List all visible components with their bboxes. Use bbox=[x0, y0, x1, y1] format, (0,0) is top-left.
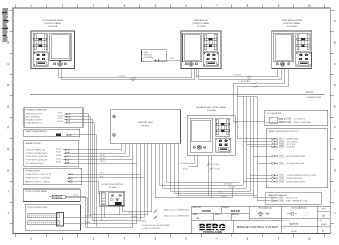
wire spare staircase 2 bbox=[163, 143, 247, 188]
riser bus v2 bbox=[237, 87, 266, 139]
cable legend entry 1 bbox=[153, 208, 189, 213]
berg propulsion logo bbox=[198, 222, 228, 234]
control lever U2 main bbox=[203, 33, 217, 51]
svg-text:POWER SUPPLY 1 - 24VDC 10 (24): POWER SUPPLY 1 - 24VDC 10 (24) bbox=[25, 174, 51, 176]
svg-text:G: G bbox=[334, 147, 336, 151]
wire VDR to main panel bbox=[159, 58, 181, 60]
shaft speed sensor box bbox=[24, 129, 80, 137]
svg-text:G: G bbox=[7, 147, 9, 151]
title text bridge control system bbox=[237, 225, 278, 229]
svg-text:SOLiD: SOLiD bbox=[291, 231, 297, 233]
cable engine panel A bbox=[180, 155, 194, 165]
svg-text:KS-423: KS-423 bbox=[221, 196, 226, 198]
svg-text:KS-421: KS-421 bbox=[182, 169, 187, 171]
svg-text:10: 10 bbox=[308, 236, 311, 240]
wire fan band 0 bbox=[167, 143, 240, 182]
pushbuttons and display engine room bbox=[216, 138, 231, 152]
svg-text:5973-74: 5973-74 bbox=[290, 224, 299, 226]
svg-text:PRESSURE SWITCH: PRESSURE SWITCH bbox=[26, 114, 43, 116]
wire local panel k1 bbox=[122, 143, 151, 211]
screen unit main bbox=[183, 33, 202, 62]
svg-text:KS-443: KS-443 bbox=[85, 215, 90, 217]
wire fan band 1 bbox=[171, 143, 250, 191]
svg-text:IN31630: IN31630 bbox=[202, 210, 212, 213]
cable engine panel D bbox=[209, 155, 220, 198]
svg-text:LUBRICATION FLOW: LUBRICATION FLOW bbox=[26, 121, 43, 124]
svg-text:2x PL-4012: 2x PL-4012 bbox=[224, 183, 232, 185]
svg-text:KS-444: KS-444 bbox=[85, 222, 90, 224]
svg-text:ENGINE ROOM: ENGINE ROOM bbox=[307, 97, 322, 99]
terminal strip local panel bbox=[101, 192, 105, 204]
hydraulic tank unit box bbox=[24, 108, 83, 127]
screen unit stbd bbox=[273, 33, 293, 62]
panel PU-2030B stbd bridge wing control panel bbox=[272, 20, 312, 68]
riser bus v5 bbox=[250, 97, 266, 191]
svg-text:DATA LOGGER [NON-FU 15 SEC-C]: DATA LOGGER [NON-FU 15 SEC-C] bbox=[269, 130, 299, 133]
title cell drawn by bbox=[193, 213, 240, 220]
wire engine panel right feed bbox=[235, 122, 237, 124]
wire local panel k2 bbox=[89, 143, 148, 214]
svg-text:NAVS SWITCHBOARD: NAVS SWITCHBOARD bbox=[268, 194, 287, 197]
svg-text:KS-454: KS-454 bbox=[56, 158, 61, 160]
svg-text:PL-4013: PL-4013 bbox=[229, 187, 235, 189]
svg-text:KS-431: KS-431 bbox=[58, 113, 63, 115]
panel PU-2030 main bridge control panel bbox=[181, 19, 221, 68]
svg-text:SHEET: SHEET bbox=[318, 220, 322, 222]
svg-text:BRIDGE CONTROL SYSTEM: BRIDGE CONTROL SYSTEM bbox=[237, 225, 278, 229]
svg-text:KS-434: KS-434 bbox=[58, 121, 63, 123]
data logger box bbox=[266, 129, 328, 188]
panel PU-2030A port bridge wing control panel bbox=[31, 20, 75, 68]
cable legend entry 2 bbox=[153, 215, 189, 220]
svg-text:PITCH CONTROL VALVE: PITCH CONTROL VALVE bbox=[25, 190, 47, 193]
wire fan band 4 bbox=[155, 143, 232, 198]
control lever U3 stbd bbox=[296, 33, 310, 51]
svg-text:2x KS-420: 2x KS-420 bbox=[180, 163, 188, 165]
control lever U1 port bbox=[33, 33, 47, 51]
svg-text:PORT BRIDGE WING: PORT BRIDGE WING bbox=[42, 20, 63, 22]
knob row port bbox=[53, 62, 67, 67]
svg-text:LOCAL PITCH CONTROL: LOCAL PITCH CONTROL bbox=[101, 183, 123, 186]
svg-text:IF CONVERTER: IF CONVERTER bbox=[267, 113, 282, 115]
svg-text:HYDRAULIC TANK UNIT: HYDRAULIC TANK UNIT bbox=[26, 109, 48, 112]
svg-text:PU-4040: PU-4040 bbox=[109, 187, 116, 189]
svg-text:KS-411: KS-411 bbox=[100, 155, 105, 157]
svg-text:KS-412: KS-412 bbox=[100, 158, 105, 160]
svg-text:B66-436: B66-436 bbox=[231, 210, 241, 213]
svg-text:Mechanical drawing: Mechanical drawing bbox=[292, 207, 307, 210]
wire local panel k4 bbox=[93, 174, 141, 221]
svg-text:MAIN BRIDGE: MAIN BRIDGE bbox=[194, 19, 208, 22]
cable engine panel C bbox=[206, 155, 219, 195]
svg-text:2x KS-401: 2x KS-401 bbox=[117, 76, 125, 78]
svg-text:Electrical drawing: Electrical drawing bbox=[258, 207, 271, 210]
column ruler numbers top bbox=[16, 4, 325, 8]
svg-text:LOG DATA: LOG DATA bbox=[144, 56, 154, 59]
wire fan band 2 bbox=[174, 143, 253, 193]
svg-text:CONTROL PANEL: CONTROL PANEL bbox=[44, 22, 62, 25]
wire stbd panel to riser bus bbox=[233, 69, 288, 89]
wire valve to nest bbox=[65, 194, 87, 227]
wire port panel pair to main panel bbox=[59, 69, 194, 82]
wire pitch unit row2 bbox=[64, 163, 137, 224]
pushbuttons and display main bbox=[203, 52, 218, 66]
svg-text:KS-441: KS-441 bbox=[73, 194, 78, 196]
VDR interface box bbox=[142, 50, 167, 62]
svg-text:AUTO SITUATION: AUTO SITUATION bbox=[26, 116, 41, 119]
svg-text:POWER SUPPLY: POWER SUPPLY bbox=[25, 170, 41, 172]
svg-text:D: D bbox=[334, 83, 336, 87]
title cell electrical drawing bbox=[258, 207, 273, 219]
svg-text:C: C bbox=[334, 62, 336, 66]
terminal strip X1 bbox=[28, 214, 60, 218]
title cell scale bbox=[282, 226, 324, 233]
svg-text:KS-432: KS-432 bbox=[58, 115, 63, 117]
riser bus v3 bbox=[243, 97, 266, 185]
svg-text:PROPULSION: PROPULSION bbox=[203, 231, 222, 234]
svg-text:HYDRAUL OIL TEMP: HYDRAUL OIL TEMP bbox=[26, 118, 43, 121]
svg-text:SHAFT SPEED SENSOR: SHAFT SPEED SENSOR bbox=[26, 130, 48, 133]
title cell drawing no bbox=[282, 219, 327, 226]
screen unit engine room bbox=[190, 118, 213, 152]
wire main panel to stbd panel bbox=[196, 69, 281, 81]
svg-text:KS-452: KS-452 bbox=[56, 152, 61, 154]
svg-text:STBD BRIDGE WING: STBD BRIDGE WING bbox=[282, 20, 303, 22]
wire fan band 3 bbox=[178, 143, 257, 195]
title block grid bbox=[192, 206, 331, 233]
svg-text:ALARM SYSTEM: ALARM SYSTEM bbox=[26, 142, 41, 145]
wire pitch unit row1 bbox=[64, 174, 145, 217]
svg-text:2x PL-4010: 2x PL-4010 bbox=[211, 164, 219, 166]
knob row stbd bbox=[276, 62, 290, 67]
pushbuttons and display stbd bbox=[296, 52, 311, 66]
svg-text:2x KS-402: 2x KS-402 bbox=[233, 74, 241, 76]
svg-text:C: C bbox=[7, 62, 9, 66]
svg-text:CLUTCH IN: CLUTCH IN bbox=[287, 144, 296, 146]
svg-text:E: E bbox=[7, 104, 9, 108]
pushbuttons and display port bbox=[33, 52, 48, 66]
svg-text:PU-2030: PU-2030 bbox=[197, 26, 206, 28]
navs switchboard box bbox=[266, 193, 322, 205]
svg-text:PU-2030A: PU-2030A bbox=[48, 25, 58, 28]
svg-text:ORDER NO: ORDER NO bbox=[223, 207, 230, 209]
screen unit port bbox=[50, 33, 71, 60]
svg-text:RPM/10 PITCH: RPM/10 PITCH bbox=[286, 197, 298, 199]
local panel face bbox=[109, 192, 124, 205]
deck separation line bbox=[30, 92, 325, 99]
control lever U4 engine room bbox=[216, 118, 230, 136]
svg-text:PU-2030B: PU-2030B bbox=[287, 26, 297, 28]
wire valve nest return bbox=[85, 160, 133, 227]
svg-text:D: D bbox=[7, 83, 9, 87]
svg-text:BRIDGE: BRIDGE bbox=[306, 92, 314, 94]
svg-text:B: B bbox=[7, 41, 9, 45]
power supply box bbox=[23, 168, 81, 184]
svg-text:PROJECT NO: PROJECT NO bbox=[193, 207, 201, 209]
svg-text:T.W %: T.W % bbox=[322, 208, 327, 210]
svg-text:ENGINE ROOM CONTROL PANEL: ENGINE ROOM CONTROL PANEL bbox=[196, 106, 226, 109]
riser bus v7 bbox=[257, 97, 266, 201]
svg-text:CONTROL PANEL: CONTROL PANEL bbox=[283, 22, 301, 25]
svg-text:10: 10 bbox=[308, 4, 311, 8]
central unit PD-2020 bbox=[110, 110, 180, 144]
svg-text:ECONOMY: ECONOMY bbox=[287, 147, 296, 149]
title cell order no bbox=[223, 207, 241, 213]
cable engine panel B bbox=[182, 155, 197, 170]
svg-text:KS-445: KS-445 bbox=[131, 216, 136, 218]
svg-text:KS-413: KS-413 bbox=[100, 161, 105, 163]
alarm system box bbox=[24, 140, 79, 166]
column ruler numbers bottom bbox=[16, 234, 325, 241]
wire hydraulic rows to bus bbox=[70, 114, 94, 224]
svg-text:A: A bbox=[334, 19, 336, 23]
solenoid valve V1 bbox=[49, 195, 65, 198]
note text bbox=[142, 221, 171, 230]
riser bus v1 to IF converter bbox=[233, 83, 265, 121]
wire alarm rows to central unit pins bbox=[69, 143, 136, 163]
svg-text:59049: 59049 bbox=[321, 224, 327, 226]
svg-text:CENTRAL UNIT: CENTRAL UNIT bbox=[138, 121, 154, 124]
svg-text:KS-422: KS-422 bbox=[218, 192, 223, 194]
panel PU-4040 local pitch control bbox=[100, 183, 125, 206]
panel PU-2030E engine room control panel bbox=[187, 106, 235, 155]
svg-text:POWER IN REMOTE CONTROL (OPEN): POWER IN REMOTE CONTROL (OPEN) bbox=[287, 175, 317, 177]
svg-text:KS-451: KS-451 bbox=[56, 148, 61, 150]
knob row engine room bbox=[193, 145, 206, 149]
pitch control unit box bbox=[25, 205, 80, 230]
svg-text:PITCH CONTROL UNIT: PITCH CONTROL UNIT bbox=[27, 207, 48, 209]
title cell project no bbox=[193, 207, 212, 213]
svg-text:KS-4: KS-4 bbox=[100, 176, 104, 178]
svg-text:P101: P101 bbox=[170, 58, 174, 60]
svg-text:VDR: VDR bbox=[144, 52, 149, 54]
svg-text:KS-455: KS-455 bbox=[56, 162, 61, 164]
svg-text:KS-4: KS-4 bbox=[100, 172, 104, 174]
svg-text:H: H bbox=[334, 168, 336, 172]
wire spare staircase 1 bbox=[159, 143, 243, 185]
wire shaft sensor to bus bbox=[71, 135, 96, 227]
wire staircase labels bbox=[218, 192, 227, 198]
wire bus distribution bbox=[237, 96, 257, 98]
svg-text:KS-433: KS-433 bbox=[58, 118, 63, 120]
svg-text:KS-453: KS-453 bbox=[56, 155, 61, 157]
IF converter box bbox=[265, 110, 328, 125]
svg-text:CHECKED: CHECKED bbox=[214, 214, 220, 216]
svg-text:PU-2030E: PU-2030E bbox=[207, 110, 216, 112]
riser bus v6 bbox=[254, 97, 267, 198]
svg-text:PL-4011: PL-4011 bbox=[214, 169, 220, 171]
pitch control valve box bbox=[23, 189, 80, 202]
svg-text:CONTROL PANEL: CONTROL PANEL bbox=[192, 22, 210, 25]
terminal strip X2 bbox=[28, 221, 60, 225]
svg-text:2x KS-403: 2x KS-403 bbox=[241, 81, 249, 83]
svg-text:E: E bbox=[334, 104, 336, 108]
riser bus v4 bbox=[247, 97, 267, 188]
title cell sheet size bbox=[322, 208, 327, 217]
wire local panel k3 bbox=[105, 206, 137, 218]
svg-text:PD-2020: PD-2020 bbox=[141, 125, 150, 127]
wire power supply rows bbox=[73, 143, 144, 193]
knob row main bbox=[185, 62, 197, 67]
title cell mechanical drawing bbox=[287, 207, 309, 217]
svg-text:H: H bbox=[7, 168, 9, 172]
plot-stamp rotated text block bbox=[2, 9, 8, 41]
svg-text:CPP CONTROL: CPP CONTROL bbox=[287, 141, 299, 143]
svg-text:B: B bbox=[334, 41, 336, 45]
connector block K1 bbox=[57, 213, 64, 227]
